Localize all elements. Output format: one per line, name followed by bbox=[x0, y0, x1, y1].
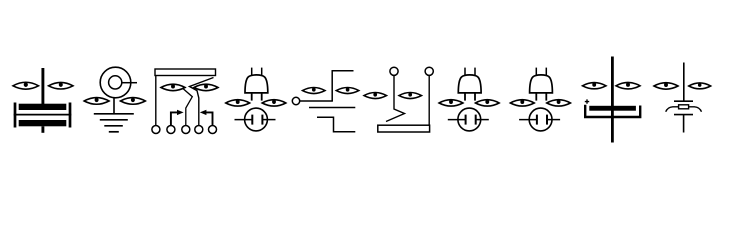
arrow wire from terminal 5 bbox=[206, 112, 213, 125]
wire from terminal to riser bbox=[300, 100, 333, 102]
tube P2 left lead wire bbox=[448, 119, 466, 121]
plug P1 right prong pin bbox=[261, 68, 263, 76]
eye left on P3 bbox=[510, 100, 534, 106]
eye right on step symbol bbox=[336, 88, 359, 94]
battery BT1 plus polarity mark bbox=[585, 99, 589, 103]
plug P2 left lower pin bbox=[464, 93, 466, 101]
terminal 5 circle bbox=[209, 126, 217, 134]
capacitor C1 bottom lead stub bbox=[41, 126, 44, 133]
crystal Y1 right whisker wire bbox=[689, 107, 702, 112]
capacitor C1 lower plate bbox=[19, 120, 67, 126]
eye left of C1 lead bbox=[13, 82, 39, 89]
plug P1 right lower pin bbox=[261, 93, 263, 101]
riser wire bbox=[331, 71, 333, 101]
tube P3 right lead wire bbox=[547, 119, 560, 121]
eye left of J1 stem bbox=[84, 98, 109, 105]
relay K1 wiper arm wire bbox=[190, 78, 214, 126]
capacitor C1 middle electrode line bbox=[14, 114, 72, 116]
plug P3 right prong pin bbox=[545, 68, 547, 76]
relay K1 zigzag contact wire bbox=[182, 88, 192, 125]
eye left on step symbol bbox=[303, 88, 326, 94]
terminal 2 circle bbox=[167, 126, 175, 134]
stepped signal wire bbox=[317, 117, 355, 132]
eye left on switch SW1 bbox=[364, 93, 387, 99]
terminal 3 circle bbox=[182, 126, 190, 134]
jack J1 center-contact lead wire bbox=[122, 82, 137, 84]
plug P3 left lower pin bbox=[535, 93, 537, 101]
plug P3 body dome bbox=[530, 75, 553, 93]
eye left of BT1 lead bbox=[583, 83, 607, 89]
tube P1 envelope circle bbox=[245, 108, 268, 131]
ground bar 2 bbox=[100, 119, 128, 121]
capacitor C1 upper plate bbox=[19, 104, 67, 110]
plug P3 left prong pin bbox=[535, 68, 537, 76]
ground bar 1 bbox=[94, 113, 134, 115]
eye right on P3 bbox=[547, 100, 571, 106]
arrowhead pointing left bbox=[200, 110, 207, 115]
eye right of J1 stem bbox=[121, 98, 146, 105]
plug P2 right prong pin bbox=[474, 68, 476, 76]
eye left on P1 bbox=[226, 100, 250, 106]
ground bar 4 bbox=[109, 131, 119, 133]
wire from K1 bar to terminal 1 bbox=[155, 76, 157, 126]
capacitor C1 left bracket electrode bbox=[14, 103, 17, 128]
tube P3 left lead wire bbox=[519, 119, 537, 121]
crystal Y1 top lead wire bbox=[683, 63, 685, 102]
plug P2 body dome bbox=[458, 75, 481, 93]
eye right of C1 lead bbox=[49, 82, 74, 89]
wire from J1 shell to ground bbox=[113, 97, 115, 113]
tube P1 right plate bar bbox=[261, 115, 263, 125]
eye middle on switch SW1 bbox=[399, 93, 422, 99]
eye right of BT1 lead bbox=[616, 82, 640, 89]
ground bar 3 bbox=[104, 125, 123, 127]
plug P1 body dome bbox=[245, 75, 268, 93]
plug P2 right lower pin bbox=[474, 93, 476, 101]
battery BT1 negative plate tray bbox=[585, 105, 640, 117]
eye right on P1 bbox=[262, 100, 286, 106]
switch SW1 right pole wire bbox=[428, 75, 430, 125]
crystal Y1 upper plate line bbox=[674, 100, 693, 102]
tube P1 right lead wire bbox=[262, 119, 275, 121]
switch SW1 left pole with zigzag blade bbox=[386, 75, 405, 121]
arrowhead pointing right bbox=[177, 110, 184, 115]
node terminal circle bbox=[292, 97, 299, 104]
switch SW1 right terminal ball bbox=[425, 67, 433, 75]
eye right of Y1 lead bbox=[689, 83, 711, 89]
eye left of Y1 lead bbox=[654, 83, 678, 90]
capacitor C1 top lead wire bbox=[41, 68, 44, 105]
tube P2 left plate bar bbox=[465, 115, 467, 125]
tube P3 left plate bar bbox=[536, 115, 538, 125]
eye left on P2 bbox=[439, 100, 463, 106]
switch SW1 base bar bbox=[378, 125, 430, 132]
plug P2 left prong pin bbox=[464, 68, 466, 76]
jack J1 outer shell circle bbox=[100, 67, 131, 98]
switch SW1 left terminal ball bbox=[390, 67, 398, 75]
plug P3 right lower pin bbox=[545, 93, 547, 101]
eye left on relay K1 bbox=[161, 84, 185, 91]
tube P1 left lead wire bbox=[235, 119, 253, 121]
tube P3 right plate bar bbox=[546, 115, 548, 125]
crystal Y1 element rectangle bbox=[679, 105, 689, 109]
tube P3 envelope circle bbox=[529, 108, 552, 131]
bus wire (mouth) bbox=[309, 107, 355, 109]
plug P1 left prong pin bbox=[251, 68, 253, 76]
plug P1 left lower pin bbox=[251, 93, 253, 101]
jack J1 inner contact circle bbox=[109, 76, 122, 89]
crystal Y1 bottom lead wire bbox=[683, 115, 685, 133]
tube P2 right plate bar bbox=[475, 115, 477, 125]
arrow wire from terminal 2 bbox=[171, 112, 178, 125]
crystal Y1 lower plate line bbox=[674, 114, 693, 116]
relay K1 coil bar (top rectangle) bbox=[155, 69, 216, 76]
tube P2 right lead wire bbox=[476, 119, 489, 121]
tube P2 envelope circle bbox=[458, 108, 481, 131]
eye right on relay K1 bbox=[194, 84, 218, 91]
battery BT1 through lead wire bbox=[611, 57, 614, 143]
tube P1 left plate bar bbox=[251, 115, 253, 125]
crystal Y1 left whisker wire bbox=[666, 107, 679, 112]
terminal 1 circle bbox=[152, 126, 160, 134]
capacitor C1 right bracket electrode bbox=[69, 103, 72, 128]
eye right on P2 bbox=[476, 100, 500, 106]
battery BT1 positive plate bar bbox=[589, 106, 636, 111]
terminal 4 circle bbox=[195, 126, 203, 134]
top rail wire bbox=[332, 70, 354, 72]
